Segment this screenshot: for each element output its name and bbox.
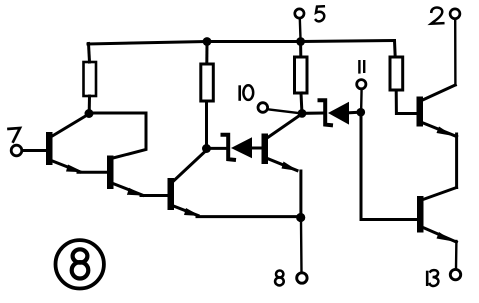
- wire rail to R3: [299, 43, 302, 57]
- terminal 11: [357, 80, 366, 89]
- node D2 anode / terminal 11: [357, 108, 366, 117]
- digit 8 inside circle: [73, 249, 88, 262]
- terminal 8: [297, 273, 307, 283]
- pin label 2: [431, 8, 443, 24]
- pin label 8: [276, 271, 283, 278]
- terminal 2: [450, 9, 460, 19]
- diode D1: [223, 135, 235, 160]
- wire terminal 5 to rail: [299, 18, 302, 41]
- part number circled 8: [55, 240, 103, 288]
- wire node down and right to Q6 base: [361, 114, 418, 220]
- transistor Q5: [417, 97, 424, 127]
- node D1 anode side: [202, 144, 211, 153]
- terminal 5: [295, 9, 304, 18]
- resistor R4: [390, 57, 403, 90]
- pin label 5: [316, 6, 324, 21]
- terminal 10: [258, 103, 268, 113]
- node rail R2: [203, 37, 212, 46]
- diode D2: [320, 100, 332, 125]
- resistor R3: [295, 57, 308, 93]
- wire Q4 emitter down to bottom node: [299, 171, 302, 216]
- wire top supply rail: [88, 41, 395, 45]
- transistor Q2: [107, 156, 114, 190]
- wire terminal 11 down to node: [360, 89, 363, 108]
- wire R4 bottom to Q5 base: [396, 90, 417, 114]
- transistor Q6: [417, 196, 424, 233]
- node under R1: [85, 109, 94, 118]
- wire Q5 emitter to Q6 collector: [455, 134, 458, 188]
- pin label 10: [238, 85, 241, 101]
- wire Q6 emitter to terminal 13: [455, 241, 458, 269]
- transistor Q4: [262, 134, 269, 165]
- pin label 11: [358, 60, 360, 74]
- node rail R3: [296, 37, 305, 46]
- wire loop node to Q2 collector: [91, 113, 146, 158]
- wire node to terminal 8: [300, 220, 303, 272]
- wire Q5 collector to terminal 2: [454, 19, 457, 85]
- wire terminal 10 to node: [268, 109, 299, 113]
- wire node to D1 cathode: [208, 147, 226, 150]
- wire Q2 emitter to Q3 base: [141, 194, 168, 197]
- pin label 7: [9, 128, 21, 142]
- wire rail corner to R4: [393, 41, 397, 58]
- node D2: [298, 109, 307, 118]
- wire node to D2 cathode: [304, 112, 323, 115]
- pin label 13: [426, 271, 429, 286]
- wire Q3 emitter bottom run to node above terminal 8: [197, 215, 300, 218]
- wire rail to R2: [205, 43, 208, 64]
- terminal 7: [11, 145, 22, 156]
- wire Q1 emitter to Q2 base: [78, 171, 108, 174]
- resistor R2: [201, 64, 214, 101]
- transistor Q3: [168, 178, 175, 210]
- resistor R1: [84, 62, 97, 96]
- node above terminal 8: [296, 213, 305, 222]
- terminal 13: [450, 269, 460, 279]
- wire R1 bottom to node: [88, 96, 91, 113]
- transistor Q1: [46, 132, 53, 165]
- wire R2 bottom to node: [205, 101, 208, 148]
- wire R3 bottom to node: [300, 93, 304, 110]
- wire terminal 7 to Q1 base: [22, 149, 47, 152]
- wire rail to R1 top: [89, 44, 90, 63]
